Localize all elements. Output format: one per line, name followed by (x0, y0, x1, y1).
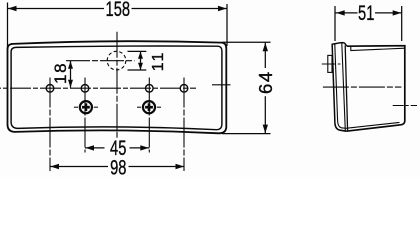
dim 158: right arrow (218, 6, 227, 11)
side view: mounting tab (328, 55, 332, 72)
hole H1 (46, 85, 54, 93)
lamp body inner outline (front view) (11, 46, 222, 130)
dim 158: extension line left (7, 3, 9, 51)
dim 64: top arrow (263, 43, 268, 52)
hole H3 (146, 85, 154, 93)
dim 98: left arrow (50, 164, 59, 169)
side view: body top inner line (351, 46, 405, 50)
dim 64: dimension line (264, 43, 266, 68)
lamp body outer outline (front view) (8, 41, 227, 133)
side view: lens right edge (342, 43, 346, 130)
svg-text:64: 64 (255, 70, 276, 94)
dim 158: extension line right (226, 4, 228, 46)
side view: lens bottom outer corner (335, 123, 346, 131)
side view: body top outer edge (346, 46, 405, 132)
screw S2 (right, ring + cross) (137, 101, 161, 113)
hole H4 (180, 85, 188, 93)
dim 45: left arrow (85, 145, 94, 150)
hole H2 vertical centerline / extension to 45 dim (84, 78, 86, 153)
dim 64: bottom arrow (263, 125, 268, 134)
dim 98: right arrow (176, 164, 185, 169)
dim 45: right arrow (140, 145, 149, 150)
svg-text:158: 158 (106, 0, 131, 20)
dim 51: extension line right (401, 6, 403, 41)
side view: lens outer profile (332, 43, 346, 123)
svg-text:18: 18 (51, 62, 70, 84)
dim 11: top arrow (138, 52, 143, 59)
side view: lower stud centerline (393, 105, 417, 107)
dim 18: dimension line (70, 61, 72, 88)
screw S1 (left, ring + cross) (74, 101, 98, 113)
side view: body front edge (345, 46, 347, 131)
dim 11: extension line top (128, 50, 147, 52)
hole H4 vertical centerline / extension to 98 dim (183, 78, 185, 172)
svg-text:51: 51 (358, 2, 374, 25)
dim 18: bottom arrow (68, 80, 73, 88)
side view: lens inner line (335, 44, 346, 128)
bulb phantom circle (dashed) (107, 51, 126, 70)
hole H1 vertical centerline / extension to 98 dim (49, 78, 51, 172)
dim 45: dimension line (85, 147, 105, 149)
vertical centerline of lamp (116, 32, 118, 139)
upper mounting hole row chain centerline (0, 87, 196, 89)
dim 158: left arrow (8, 6, 17, 11)
dim 98: dimension line (50, 166, 108, 168)
hole H3 vertical centerline / extension to 45 dim (148, 78, 150, 153)
right body horizontal centerline tick (212, 84, 231, 86)
side view: upper holes centerline (323, 86, 402, 88)
dim 11: dimension line (140, 52, 142, 70)
dim 64: extension line bottom (222, 133, 271, 135)
hole H2 (81, 85, 89, 93)
dim 51: extension line left (334, 6, 336, 41)
side view: body bottom inner line (346, 122, 400, 128)
side view: tab centerline (322, 63, 341, 65)
dim 51: right arrow (393, 10, 402, 15)
dim 51: left arrow (336, 10, 345, 15)
dim 18: top arrow (68, 61, 73, 69)
svg-text:98: 98 (110, 156, 126, 177)
dim 51: dimension line (335, 12, 358, 14)
dim 158: dimension line (8, 8, 105, 10)
dim 64: extension line top (222, 41, 271, 43)
horizontal centerline through bulb circle (66, 60, 135, 62)
svg-text:11: 11 (150, 51, 167, 72)
dim 11: bottom arrow (138, 63, 143, 70)
dim 11: extension line bottom (128, 69, 147, 71)
